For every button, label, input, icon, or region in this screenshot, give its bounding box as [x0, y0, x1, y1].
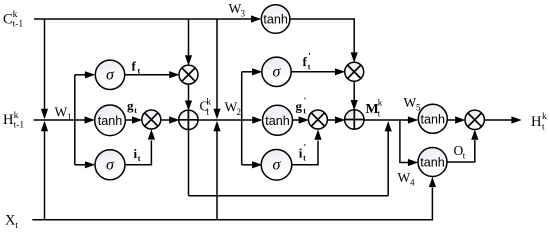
svg-text:σ: σ — [273, 64, 282, 81]
wire skip rise at x=388.2 — [387, 131, 389, 196]
arrowhead into tanh W5 — [408, 116, 418, 123]
tanh gate W4 — [418, 148, 447, 177]
arrowhead into sigma f' — [252, 68, 262, 75]
multiplier (circle-X) cell2 mid — [308, 110, 327, 129]
svg-text:4: 4 — [410, 178, 415, 188]
sigma gate f' (cell2 top) — [262, 57, 291, 86]
node label O_t — [454, 143, 466, 161]
svg-text:tanh: tanh — [421, 112, 446, 126]
svg-text:X: X — [5, 213, 16, 229]
arrowhead into multiplier mid from tanh1 — [132, 116, 142, 123]
gate output label i_t — [134, 146, 141, 163]
arrowhead into output multiplier from tanh W5 — [455, 116, 465, 123]
arrowhead into sigma i — [85, 161, 95, 168]
wire vertical C drop at x=44.5 into W1 junction — [44, 19, 46, 111]
svg-text:t: t — [134, 106, 137, 115]
wire vertical X_t rise at x=44.5 into W1 junction — [44, 130, 46, 220]
svg-text:tanh: tanh — [263, 13, 288, 27]
svg-text:σ: σ — [273, 157, 282, 174]
wire branch vertical first cell x=74.8 — [74, 75, 76, 165]
svg-text:M: M — [366, 102, 379, 117]
svg-text:t: t — [303, 154, 306, 163]
arrowhead into multiplier2 mid from tanh2 — [299, 116, 309, 123]
arrowhead into sigma f — [85, 71, 95, 78]
node label C^k_t — [200, 97, 212, 118]
svg-text:t: t — [542, 123, 545, 133]
arrowhead into tanh1 — [85, 116, 95, 123]
svg-text:tanh: tanh — [420, 156, 445, 170]
node label H^k_t-1 — [3, 111, 24, 131]
svg-text:k: k — [378, 97, 383, 107]
wire tanh2 to multiplier2 mid — [293, 119, 300, 121]
arrowhead into adder M from multiplier2 mid — [335, 116, 345, 123]
weight label W1 — [55, 104, 72, 122]
wire output H_t — [484, 119, 512, 121]
weight label W4 — [398, 170, 416, 188]
node label C^k_t-1 — [3, 10, 23, 30]
svg-text:t: t — [303, 107, 306, 116]
arrowhead up into multiplier2 mid from sigma i' — [314, 129, 321, 139]
wire vertical from top line into multiplier top x=188.5 — [188, 19, 190, 57]
svg-text:t: t — [378, 108, 381, 118]
arrowhead up into W1 junction — [41, 121, 48, 131]
arrowhead into tanh W3 — [251, 15, 261, 22]
svg-text:t-1: t-1 — [13, 20, 24, 30]
wire vertical X_t rise at x=217 into W2 junction — [216, 131, 218, 220]
wire sigma i elbow to multiplier mid — [125, 141, 151, 165]
wire X_t bottom line rising into tanh W4 — [32, 188, 432, 220]
svg-text:t: t — [308, 63, 311, 72]
wire H_t-1 input to tanh1 — [34, 119, 86, 121]
svg-text:t: t — [463, 150, 466, 160]
svg-text:H: H — [3, 112, 14, 128]
svg-text:3: 3 — [241, 9, 246, 19]
svg-text:f: f — [132, 58, 137, 73]
arrowhead down into W2 junction — [213, 109, 220, 119]
svg-text:t: t — [138, 154, 141, 163]
multiplier (circle-X) cell2 top — [345, 62, 364, 81]
wire vertical C drop at x=217 into W2 junction — [216, 19, 218, 110]
wire adder down to skip line — [188, 129, 190, 196]
svg-text:W: W — [55, 104, 68, 119]
wire sigma i' elbow to multiplier2 mid — [292, 141, 318, 165]
svg-text:g: g — [127, 98, 134, 113]
wire sigma f' to multiplier2 top — [291, 71, 335, 73]
arrowhead into multiplier top from sigma f — [169, 71, 179, 78]
sigma gate i' (cell2 bottom) — [261, 150, 292, 181]
svg-text:g: g — [296, 99, 303, 114]
arrowhead into tanh2 — [252, 116, 262, 123]
tanh gate cell1 — [95, 105, 126, 136]
svg-text:tanh: tanh — [265, 114, 290, 128]
svg-text:': ' — [304, 96, 307, 106]
wire skip line C_t to M junction — [189, 195, 389, 197]
arrowhead down into multiplier top — [185, 55, 192, 65]
sigma gate f (cell1 top) — [95, 60, 124, 89]
op-amp style gate circles — [95, 5, 485, 180]
tanh gate cell2 — [263, 105, 293, 135]
svg-text:t: t — [15, 221, 18, 231]
svg-text:t: t — [138, 67, 141, 76]
wire C_t / W2 line into tanh2 — [197, 119, 253, 121]
arrowhead up into output multiplier from O_t — [471, 129, 478, 139]
arrowhead down into adder M — [351, 100, 358, 110]
svg-text:k: k — [542, 112, 547, 122]
wire elbow into sigma f — [75, 74, 86, 76]
weight label W5 — [404, 95, 422, 113]
wire branch vertical second cell x=241.7 — [241, 72, 243, 165]
svg-text:tanh: tanh — [98, 114, 123, 128]
node label M^k_t — [366, 97, 383, 118]
wire top C_t-1 line — [34, 18, 252, 20]
wire tanh1 to multiplier mid — [125, 119, 133, 121]
arrowhead up into tanh W4 from X_t — [429, 177, 436, 187]
svg-text:i: i — [299, 146, 303, 161]
svg-text:': ' — [308, 52, 311, 62]
gate output label i'_t — [299, 143, 306, 163]
adder (circle-plus) cell1 — [179, 110, 198, 129]
wire elbow into sigma i' — [242, 164, 253, 166]
svg-text:t-1: t-1 — [14, 121, 25, 131]
arrowhead up into W2 junction — [213, 121, 220, 131]
arrowhead down into multiplier2 top — [351, 52, 358, 62]
svg-text:C: C — [3, 11, 13, 27]
wire elbow into sigma i — [75, 164, 86, 166]
wire tanh W3 output elbow down to multiplier2 top — [290, 19, 354, 54]
gate output label g_t — [127, 98, 137, 115]
svg-text:W: W — [404, 95, 417, 110]
wire multiplier mid to adder — [160, 119, 170, 121]
wire multiplier2 top to adder M — [353, 81, 355, 101]
weight label W3 — [229, 1, 246, 19]
tanh gate W3 (top) — [261, 5, 290, 34]
multiplier (circle-X) cell1 mid — [142, 110, 161, 129]
wire sigma f to multiplier top — [125, 74, 170, 76]
node label H^k_t — [531, 112, 547, 133]
wire W4 branch elbow from main line down to tanh W4 — [400, 120, 409, 163]
sigma gate i (cell1 bottom) — [95, 150, 125, 180]
wire elbow into sigma f' — [242, 71, 253, 73]
wire multiplier top to adder — [188, 84, 190, 102]
wire O_t elbow tanh W4 to output multiplier — [447, 140, 475, 162]
gate output label g'_t — [296, 96, 307, 116]
svg-text:5: 5 — [416, 103, 421, 113]
svg-text:k: k — [13, 10, 18, 20]
arrowhead up into multiplier mid from sigma i — [148, 129, 155, 139]
svg-text:1: 1 — [67, 112, 72, 122]
svg-text:W: W — [398, 170, 411, 185]
arrowhead into tanh W4 — [408, 159, 418, 166]
wire M / W5 line into tanh W5 — [364, 119, 409, 121]
arrowhead into adder from multiplier mid — [169, 116, 179, 123]
svg-text:2: 2 — [237, 107, 242, 117]
tanh gate W5 — [418, 104, 447, 133]
svg-text:k: k — [207, 97, 212, 107]
svg-text:': ' — [304, 143, 307, 153]
node label X_t — [5, 213, 18, 232]
arrowhead up skip into W5 line — [385, 121, 392, 131]
arrowhead into sigma i' — [252, 161, 262, 168]
arrowhead output H_t — [511, 116, 521, 123]
svg-text:σ: σ — [106, 67, 115, 84]
weight label W2 — [225, 100, 242, 118]
multiplier (circle-X) cell1 top — [179, 65, 198, 84]
output multiplier (circle-X) — [465, 110, 484, 129]
svg-text:σ: σ — [106, 157, 115, 174]
wire multiplier2 mid to adder M — [327, 119, 336, 121]
gate output label f'_t — [303, 52, 311, 72]
gate output label f_t — [132, 58, 141, 75]
wire tanh W5 to output multiplier — [447, 119, 456, 121]
adder M (circle-plus) cell2 — [345, 110, 364, 129]
svg-text:k: k — [14, 111, 19, 121]
svg-text:t: t — [207, 107, 210, 117]
arrowhead into multiplier2 top from sigma f' — [335, 68, 345, 75]
arrowhead down into adder — [185, 101, 192, 111]
svg-text:H: H — [531, 114, 542, 130]
svg-text:f: f — [303, 54, 308, 69]
arrowhead down into W1 junction — [41, 109, 48, 119]
